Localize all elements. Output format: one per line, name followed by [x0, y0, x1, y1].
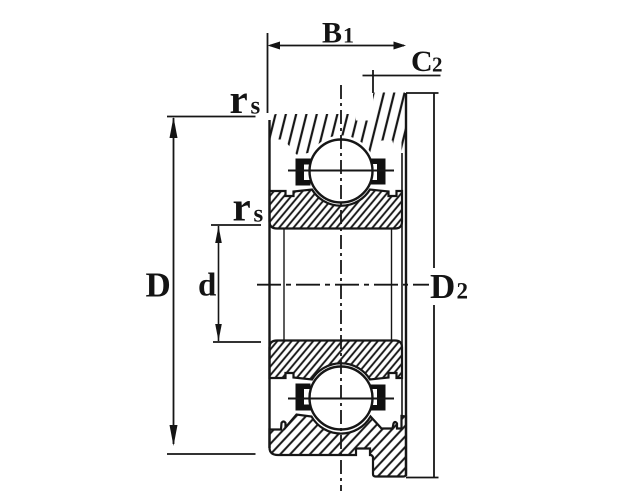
svg-text:s: s [254, 201, 264, 228]
C2 left extension [372, 70, 374, 93]
svg-text:s: s [251, 93, 261, 120]
C2 dimension line [363, 75, 441, 77]
outer ring top (hatched, right 45deg part incl. flange) [270, 93, 407, 155]
bore chamfer edge right [391, 229, 393, 341]
cross line through bottom ball [288, 398, 394, 400]
svg-text:B: B [322, 17, 342, 50]
bore chamfer edge left [283, 229, 285, 341]
B1 left extension line [267, 33, 269, 113]
svg-text:d: d [198, 268, 216, 304]
vertical centerline (dash-dot) [340, 85, 342, 491]
d bottom extension line [213, 341, 261, 343]
seal bottom-left [296, 384, 311, 411]
svg-text:1: 1 [343, 23, 354, 48]
ball bottom [310, 367, 373, 430]
ball top [310, 140, 373, 203]
outer ring top (hatched, left steep part) [270, 93, 407, 155]
D top extension line [167, 116, 256, 118]
seal top-right (black bracket opening left) [371, 159, 386, 185]
D bottom extension line [167, 453, 256, 455]
left face silhouette line [268, 120, 270, 448]
inner ring right face line [401, 153, 403, 416]
svg-text:2: 2 [432, 53, 443, 77]
outer ring top outline [270, 93, 407, 155]
B1 dimension line with arrows [270, 45, 404, 47]
d top extension line [211, 224, 261, 226]
outer ring bottom (hatched incl. bottom flange) [270, 415, 407, 477]
svg-text:r: r [233, 184, 251, 230]
svg-text:2: 2 [457, 279, 469, 304]
svg-text:C: C [411, 45, 433, 78]
inner ring top (hatched) [270, 190, 403, 229]
svg-text:r: r [230, 76, 248, 122]
svg-text:D: D [146, 265, 171, 304]
D dimension line with arrows [173, 118, 175, 444]
seal top-left (black bracket opening right) [296, 159, 311, 186]
svg-text:D: D [430, 267, 455, 306]
D2 top extension line [406, 92, 439, 94]
seal bottom-right [371, 385, 386, 411]
horizontal axis centerline (dash-dot) [257, 284, 429, 286]
inner ring bottom (hatched) [270, 341, 403, 380]
D2 bottom extension line [406, 477, 439, 479]
d dimension line with arrows [218, 226, 220, 341]
D2 dimension line segments [433, 93, 435, 268]
right flange face silhouette line [405, 93, 407, 476]
cross line through top ball [288, 170, 394, 172]
